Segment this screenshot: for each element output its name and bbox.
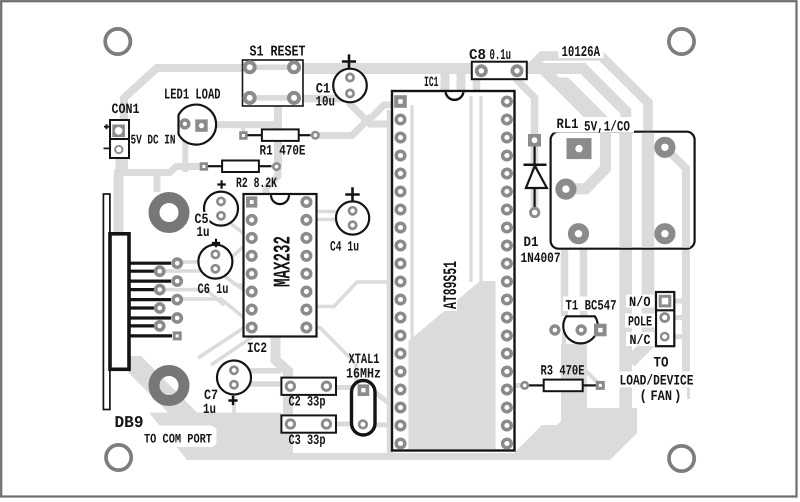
svg-text:10126A: 10126A [562,44,601,61]
svg-text:TO: TO [654,356,669,372]
wire stub down from CON1 row [154,172,161,192]
LED LED1 [179,105,217,145]
plus of C4 [345,187,359,201]
capacitor C6 [198,245,232,279]
resistor R2 [200,161,280,173]
wire relay to T1 [565,248,584,316]
wire long vertical to XTAL [387,110,394,455]
svg-text:LED1 LOAD: LED1 LOAD [164,87,221,104]
svg-text:10u: 10u [316,95,336,111]
svg-text:POLE: POLE [628,315,652,331]
wire DB9 left column [114,176,124,358]
wire LED1 cathode down [182,131,188,172]
connector DB9 [103,194,181,410]
relay RL1 [551,132,695,249]
IC2 pin pads [302,198,311,207]
IC U1 AT89S51 body [392,91,515,451]
wire thin traces inside IC1 [412,96,481,341]
transistor T1 BC547 [551,316,607,343]
plus of C6 [212,239,220,247]
wire right column bend to N/C [674,318,684,337]
svg-text:DB9: DB9 [115,413,144,432]
svg-text:C6 1u: C6 1u [198,282,229,298]
svg-text:): ) [674,389,682,405]
wire T1 left pad diag to R3 right pad [564,332,597,382]
capacitor C7 [217,361,251,395]
svg-text:R1 470E: R1 470E [260,144,306,160]
switch S1 [243,60,304,106]
text halo 10126A [559,44,604,58]
mounting hole bottom-right [669,446,694,471]
svg-text:MAX232: MAX232 [271,236,298,287]
plus of C7 [228,396,237,405]
wire relay NO pad diagonal [665,147,686,399]
wire main top band A [303,69,626,131]
resistor R3 [522,380,605,392]
wire R3 to IC1 [508,383,521,388]
svg-text:0.1u: 0.1u [490,47,512,64]
wire CON1 to R2 left pad [114,150,202,173]
svg-text:N/C: N/C [630,333,651,349]
diode D1 1N4007 [524,134,547,217]
svg-text:T1 BC547: T1 BC547 [566,299,617,315]
svg-text:IC1: IC1 [424,75,439,91]
svg-text:5V,1/CO: 5V,1/CO [584,120,630,136]
wire verticals above IC1 [445,71,461,91]
svg-text:CON1: CON1 [112,102,140,118]
svg-text:IC2: IC2 [247,341,267,357]
wire traces inside relay [626,133,648,248]
plus of C5 [217,180,225,188]
svg-text:5V DC IN: 5V DC IN [131,133,176,148]
wire S1 bottom pads bar [250,67,294,98]
svg-text:S1 RESET: S1 RESET [250,44,306,61]
mounting hole bottom-left [106,445,131,470]
svg-text:R2 8.2K: R2 8.2K [236,176,277,192]
wire C1 to R1 right pad [350,95,390,124]
wire IC2 bottom to pour [276,333,289,453]
svg-text:N/O: N/O [629,295,651,311]
wire S1 to R2 right pad vertical [274,98,282,166]
svg-text:C8: C8 [469,47,486,64]
svg-text:D1: D1 [524,235,539,251]
wire band 648 below relay tail [630,248,648,362]
svg-text:LOAD/DEVICE: LOAD/DEVICE [620,374,694,390]
text halo T1 [563,297,619,312]
svg-text:C4 1u: C4 1u [330,240,359,256]
ground pour DB9 diagonal [112,356,199,414]
text halo N/O POLE N/C [626,295,654,308]
wire top band r1 to right side [531,56,648,130]
svg-text:1u: 1u [203,402,216,418]
wire right column to N/O pad [674,299,686,304]
wire S1 to left edge column [124,68,303,172]
text halo TO COM PORT [139,426,217,448]
capacitor C1 [333,54,367,102]
svg-text:C2 33p: C2 33p [289,395,326,411]
svg-text:R3 470E: R3 470E [541,364,585,380]
text halo TO LOAD/DEVICE FAN [647,354,673,370]
wire band 625 below relay to pour [619,248,632,437]
svg-text:C3 33p: C3 33p [289,433,326,449]
capacitor C8 [472,62,527,79]
svg-text:16MHz: 16MHz [346,367,381,383]
wire IC1 interior thin traces [414,96,483,341]
svg-text:TO COM PORT: TO COM PORT [144,432,212,447]
mounting hole top-left [105,29,130,54]
connector CON1 [104,120,130,158]
svg-text:RL1: RL1 [557,117,579,133]
connector output N/O POLE N/C [656,292,674,346]
DB9 screw ring bottom [154,371,184,401]
resistor R1 [239,129,318,141]
text halo RL1 [552,117,634,133]
label AT89S51 (rotated) [441,258,457,311]
text halo C5 [193,212,210,238]
ground pour inside IC1 [409,281,496,449]
capacitor C4 [336,201,369,234]
wire C8 pads down to IC1 [477,71,535,209]
wire XTAL / C2 / C3 stubs [326,388,397,425]
svg-text:1N4007: 1N4007 [521,251,561,267]
wire T1 to R3 band [561,344,587,425]
wire band C [558,84,590,133]
svg-text:(: ( [640,389,648,405]
ground pour bottom band [149,408,637,460]
wire DB9 to IC2 diagonals [160,212,391,415]
TRACES [114,56,686,455]
wire C1 node to IC1 pin1 [316,105,397,136]
wire band B through relay to bottom pour [544,70,606,130]
wire IC2 notch feed [266,164,278,196]
svg-text:FAN: FAN [651,389,673,405]
svg-text:1u: 1u [197,225,210,241]
capacitor C5 [204,192,238,226]
crystal XTAL1 [352,381,376,436]
DB9 screw ring top [154,198,184,228]
IC U2 MAX232 body [244,194,317,337]
svg-text:AT89S51: AT89S51 [440,261,462,309]
capacitor C3 [281,415,336,432]
capacitor C2 [281,378,336,395]
wire LED1 to vertical [203,121,276,128]
relay pads [567,138,592,159]
IC1 pin pads [503,97,512,106]
mounting hole top-right [669,29,694,54]
